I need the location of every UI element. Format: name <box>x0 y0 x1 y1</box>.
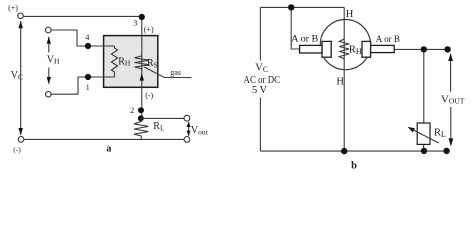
svg-text:VC: VC <box>255 62 268 74</box>
svg-text:RL: RL <box>153 121 165 132</box>
svg-text:(+): (+) <box>144 25 154 34</box>
svg-text:4: 4 <box>85 33 89 42</box>
svg-text:RL: RL <box>434 127 446 139</box>
svg-text:A or B: A or B <box>376 34 401 45</box>
svg-text:1: 1 <box>86 83 90 92</box>
svg-text:H: H <box>346 9 354 20</box>
svg-text:H: H <box>336 77 344 88</box>
svg-text:RS: RS <box>147 58 158 69</box>
svg-text:RH: RH <box>118 56 131 67</box>
svg-text:A or B: A or B <box>291 33 318 44</box>
svg-text:2: 2 <box>130 106 134 115</box>
svg-text:b: b <box>351 160 357 171</box>
svg-text:(+): (+) <box>8 4 18 13</box>
svg-text:3: 3 <box>133 19 137 28</box>
svg-text:VH: VH <box>47 54 60 65</box>
svg-text:Vout: Vout <box>191 125 209 137</box>
svg-text:(-): (-) <box>145 91 153 100</box>
svg-text:5 V: 5 V <box>252 85 268 96</box>
svg-text:gas: gas <box>170 68 181 77</box>
svg-text:RH: RH <box>349 44 362 56</box>
svg-text:VC: VC <box>11 70 23 81</box>
svg-text:a: a <box>106 143 111 154</box>
svg-text:(-): (-) <box>13 145 21 154</box>
